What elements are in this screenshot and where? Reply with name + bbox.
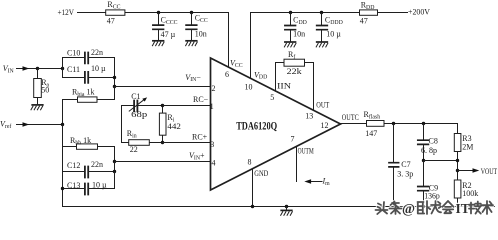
capacitor C13 bbox=[63, 172, 115, 195]
watermark char ji bbox=[469, 202, 481, 214]
wire pin5 IIN riser bbox=[276, 63, 285, 92]
resistor R2 bbox=[454, 180, 461, 207]
svg-text:12: 12 bbox=[321, 121, 329, 130]
svg-text:3. 3p: 3. 3p bbox=[397, 169, 413, 178]
svg-text:100k: 100k bbox=[462, 189, 478, 198]
svg-text:CCCC: CCCC bbox=[161, 16, 178, 26]
input Vref arrow bbox=[17, 122, 63, 127]
capacitor C8 bbox=[418, 124, 429, 161]
svg-text:68p: 68p bbox=[131, 110, 147, 119]
resistor Ri bbox=[159, 106, 166, 143]
svg-text:1: 1 bbox=[210, 102, 214, 111]
node CCCC tap bbox=[157, 11, 160, 14]
resistor R3 bbox=[454, 124, 461, 181]
svg-text:RDD: RDD bbox=[361, 0, 375, 10]
svg-text:147: 147 bbox=[365, 129, 377, 138]
node bottom-rail ground tap bbox=[285, 205, 288, 208]
watermark char shu bbox=[481, 201, 493, 214]
capacitor C9 bbox=[418, 161, 429, 207]
svg-text:VDD: VDD bbox=[254, 70, 267, 80]
resistor Rbb bbox=[63, 144, 115, 162]
resistor RCC bbox=[106, 10, 125, 15]
node Ri top bbox=[161, 104, 164, 107]
node CCC tap bbox=[190, 11, 193, 14]
svg-text:Rflash: Rflash bbox=[364, 110, 381, 120]
node VIN- bbox=[113, 85, 116, 88]
node Rflash out bbox=[392, 122, 395, 125]
node R divider mid bbox=[456, 159, 459, 162]
svg-text:VCC: VCC bbox=[230, 59, 243, 69]
resistor Ra bbox=[34, 69, 42, 105]
capacitor C7 bbox=[389, 124, 399, 207]
svg-text:10 µ: 10 µ bbox=[326, 29, 341, 38]
ground under Ra bbox=[31, 105, 43, 110]
op-amp U1 TDA6120Q triangle bbox=[211, 58, 341, 190]
node CDDD tap bbox=[320, 11, 323, 14]
wire pin8 GND drop bbox=[252, 169, 254, 207]
svg-text:47: 47 bbox=[107, 17, 115, 26]
ground under CCC bbox=[186, 41, 198, 46]
svg-text:22n: 22n bbox=[91, 160, 103, 169]
capacitor C12 bbox=[63, 162, 115, 178]
svg-text:R3: R3 bbox=[462, 134, 471, 143]
svg-text:22k: 22k bbox=[287, 67, 302, 76]
wire mid row bbox=[424, 160, 458, 162]
svg-text:+200V: +200V bbox=[408, 8, 430, 17]
current arrow Im bbox=[304, 179, 322, 184]
wire pin7 OUTM drop bbox=[296, 146, 298, 181]
svg-text:C13: C13 bbox=[67, 181, 80, 190]
node VIN bbox=[36, 67, 39, 70]
wire OUTC from apex bbox=[341, 123, 367, 125]
svg-text:C12: C12 bbox=[67, 161, 80, 170]
svg-text:@: @ bbox=[402, 202, 415, 217]
svg-text:Rbia 1k: Rbia 1k bbox=[72, 88, 94, 98]
svg-text:13: 13 bbox=[305, 111, 313, 120]
node C11 right bbox=[113, 76, 116, 79]
svg-text:22: 22 bbox=[130, 145, 138, 154]
node Ri bottom bbox=[161, 141, 164, 144]
svg-text:OUTC: OUTC bbox=[342, 113, 359, 122]
node CDD tap bbox=[289, 11, 292, 14]
svg-text:8: 8 bbox=[248, 157, 252, 166]
wire VIN to C10/C11 bbox=[38, 68, 63, 70]
svg-text:6. 8p: 6. 8p bbox=[421, 146, 437, 155]
svg-text:OUT: OUT bbox=[316, 100, 329, 109]
node C12 right bbox=[113, 170, 116, 173]
svg-text:Rf: Rf bbox=[288, 50, 295, 60]
svg-text:4: 4 bbox=[212, 159, 216, 168]
node C9 bottom bbox=[422, 205, 425, 208]
resistor Rf bbox=[284, 59, 305, 66]
output VOUT arrow bbox=[458, 168, 480, 173]
ground under CCCC bbox=[152, 41, 164, 46]
ground at bottom rail bbox=[281, 207, 293, 216]
resistor Rbia bbox=[63, 87, 115, 125]
watermark halo bbox=[376, 201, 494, 217]
svg-text:6: 6 bbox=[225, 70, 229, 79]
svg-text:10 µ: 10 µ bbox=[91, 64, 106, 73]
node C10/C11 left bbox=[61, 67, 64, 70]
svg-text:10n: 10n bbox=[195, 29, 207, 38]
node VOUT tap bbox=[456, 169, 459, 172]
svg-text:VIN: VIN bbox=[3, 64, 15, 74]
input VIN arrow bbox=[17, 66, 38, 71]
svg-text:CCC: CCC bbox=[195, 14, 208, 24]
capacitor C1 variable bbox=[122, 97, 163, 111]
wire Rf to pin13 OUT bbox=[305, 63, 314, 111]
node VIN+ bbox=[113, 160, 116, 163]
wire bottom rail bbox=[63, 206, 495, 208]
svg-text:136p: 136p bbox=[424, 191, 440, 200]
svg-text:CDD: CDD bbox=[293, 16, 307, 26]
svg-text:47 µ: 47 µ bbox=[161, 30, 176, 39]
svg-text:C10: C10 bbox=[67, 49, 80, 58]
resistor Rflash bbox=[367, 121, 385, 127]
svg-text:442: 442 bbox=[167, 122, 181, 131]
watermark char tiao bbox=[390, 202, 402, 215]
node C13 left bbox=[61, 187, 64, 190]
wire to pin 1 bbox=[163, 105, 211, 107]
svg-text:10n: 10n bbox=[293, 30, 305, 39]
svg-text:RCC: RCC bbox=[107, 0, 120, 10]
capacitor CDDD bbox=[317, 13, 328, 42]
svg-text:Rbb 1k: Rbb 1k bbox=[70, 136, 91, 146]
svg-text:2M: 2M bbox=[462, 143, 473, 152]
node Vref bbox=[61, 123, 64, 126]
svg-text:10: 10 bbox=[245, 83, 253, 92]
node GND rail bbox=[251, 205, 254, 208]
ground under CDD bbox=[284, 42, 296, 47]
wire C10/C11 right vertical bbox=[114, 58, 116, 87]
svg-text:50: 50 bbox=[41, 86, 49, 95]
svg-text:CDDD: CDDD bbox=[325, 16, 343, 26]
capacitor CDD bbox=[285, 13, 296, 42]
svg-text:VIN−: VIN− bbox=[185, 73, 201, 83]
svg-text:RC−: RC− bbox=[193, 95, 209, 104]
wire to pin 3 bbox=[163, 142, 211, 144]
wire to pin 4 bbox=[115, 161, 211, 163]
svg-text:2: 2 bbox=[212, 84, 216, 93]
watermark char hui bbox=[443, 201, 454, 213]
svg-text:C7: C7 bbox=[401, 160, 410, 169]
svg-text:Vref: Vref bbox=[0, 119, 11, 129]
svg-text:GND: GND bbox=[254, 169, 268, 178]
svg-text:7: 7 bbox=[291, 135, 295, 144]
watermark char tou bbox=[376, 202, 388, 214]
svg-text:+12V: +12V bbox=[58, 8, 75, 17]
svg-text:C11: C11 bbox=[67, 65, 80, 74]
svg-text:VIN+: VIN+ bbox=[189, 151, 205, 161]
watermark char long bbox=[431, 201, 441, 214]
wire to pin 2 bbox=[115, 86, 211, 88]
wire Vref vertical bus bbox=[62, 125, 64, 207]
svg-text:VOUT: VOUT bbox=[481, 167, 498, 176]
capacitor CCC bbox=[186, 13, 197, 41]
svg-text:RC+: RC+ bbox=[192, 133, 208, 142]
svg-text:OUTM: OUTM bbox=[298, 146, 314, 155]
capacitor C11 bbox=[63, 72, 115, 83]
wire C1 loop left bbox=[121, 106, 123, 143]
svg-text:Im: Im bbox=[322, 176, 331, 186]
ground under CDDD bbox=[316, 42, 328, 47]
svg-text:3: 3 bbox=[210, 140, 214, 149]
svg-text:47: 47 bbox=[360, 17, 368, 26]
svg-text:IIN: IIN bbox=[277, 82, 291, 91]
node C8/C9 mid bbox=[422, 159, 425, 162]
capacitor CCCC bbox=[153, 13, 164, 41]
svg-text:IT: IT bbox=[456, 201, 470, 216]
resistor Rin bbox=[122, 140, 163, 146]
resistor RDD bbox=[360, 10, 378, 15]
svg-text:5: 5 bbox=[270, 93, 274, 102]
svg-text:TDA6120Q: TDA6120Q bbox=[236, 121, 277, 133]
node C8 top bbox=[422, 122, 425, 125]
svg-text:10 µ: 10 µ bbox=[92, 180, 107, 189]
svg-text:Rin: Rin bbox=[127, 129, 137, 139]
svg-text:22n: 22n bbox=[91, 48, 103, 57]
wire Rflash to ladder bbox=[384, 123, 458, 125]
svg-text:C1: C1 bbox=[131, 92, 140, 101]
svg-text:C8: C8 bbox=[429, 136, 438, 145]
wire +200V rail bbox=[251, 13, 408, 79]
wire +12V rail bbox=[78, 13, 229, 68]
capacitor C10 bbox=[63, 53, 115, 78]
node R2 bottom bbox=[456, 205, 459, 208]
watermark char wo bbox=[418, 201, 431, 214]
